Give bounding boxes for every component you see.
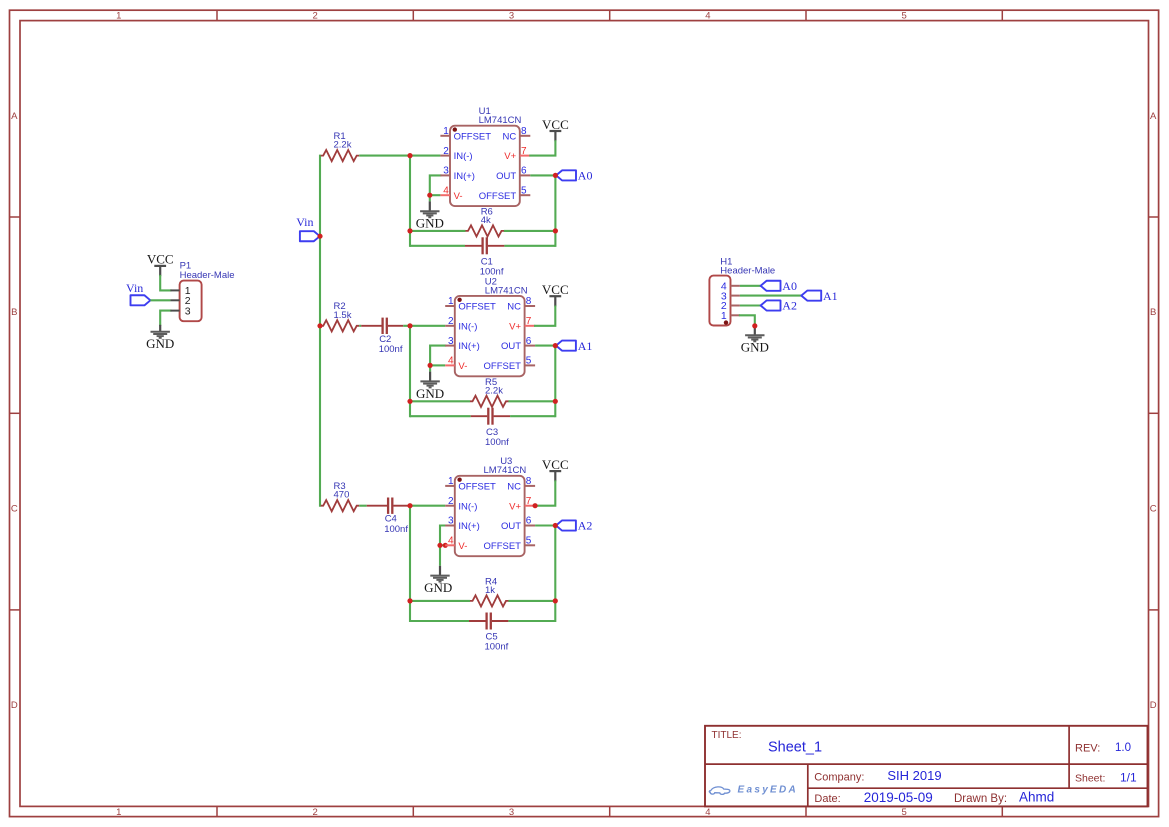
wire ground stub (U2) (429, 365, 431, 371)
capacitor C3 (471, 408, 510, 448)
U1 pin 8 (NC) (502, 126, 530, 142)
svg-text:B: B (11, 307, 17, 318)
svg-text:2: 2 (448, 496, 454, 507)
svg-text:NC: NC (507, 482, 521, 493)
svg-text:2019-05-09: 2019-05-09 (864, 790, 933, 805)
resistor R4 (470, 577, 509, 607)
EasyEDA logo (709, 785, 798, 796)
resistor R2 (321, 301, 360, 331)
wire feedback row right (R5) (508, 400, 555, 402)
ground (U1) (416, 201, 444, 230)
wire junction down to feedback loop (409, 506, 411, 621)
junction bus / R2 (317, 323, 322, 328)
svg-text:A: A (11, 111, 18, 122)
svg-text:1.0: 1.0 (1115, 742, 1131, 754)
svg-text:8: 8 (526, 296, 532, 307)
svg-text:1k: 1k (485, 585, 495, 596)
ground (P1) (146, 325, 174, 351)
wire pin 3 of U1 to ground net (430, 175, 441, 195)
junction at output A0 (553, 173, 558, 178)
net flag A0 (U1 output) (556, 169, 592, 183)
svg-text:VCC: VCC (542, 282, 569, 297)
resistor R5 (470, 377, 509, 407)
svg-text:Vin: Vin (126, 281, 143, 295)
capacitor C1 (465, 237, 504, 277)
net flag Vin (bus) (296, 215, 320, 241)
wire Vin bus vertical (R1/R2/R3 feed) (319, 156, 321, 506)
U2 pin 5 (OFFSET) (484, 356, 536, 372)
junction at output A1 (553, 343, 558, 348)
svg-text:C: C (11, 504, 18, 515)
svg-text:GND: GND (416, 386, 444, 401)
wire VCC to P1 pin 1 (160, 276, 170, 291)
op-amp U2 LM741CN (445, 277, 535, 377)
resistor R1 (321, 131, 360, 161)
wire VCC to pin 7 of U3 (535, 481, 555, 505)
svg-text:1.5k: 1.5k (334, 310, 352, 321)
svg-text:SIH 2019: SIH 2019 (887, 768, 941, 783)
net flag Vin (P1) (126, 281, 150, 306)
U1 pin 2 (IN(-)) (440, 146, 472, 162)
svg-text:A0: A0 (578, 169, 593, 183)
svg-text:7: 7 (526, 496, 532, 507)
svg-text:VCC: VCC (542, 457, 569, 472)
op-amp U3 LM741CN (445, 456, 535, 556)
U1 pin 5 (OFFSET) (479, 185, 531, 201)
wire VCC to pin 7 of U2 (535, 307, 555, 326)
wire pin 6 of U2 to net flag A1 (535, 345, 556, 347)
svg-text:4: 4 (448, 536, 454, 547)
power flag VCC (U1) (542, 117, 569, 142)
svg-text:2: 2 (448, 316, 454, 327)
svg-text:IN(+): IN(+) (458, 341, 479, 352)
wire R1 to pin 2 of U1 (359, 155, 440, 157)
svg-text:2: 2 (443, 146, 449, 157)
wire output down right side of feedback loop (554, 175, 556, 245)
svg-text:V+: V+ (504, 151, 516, 162)
wire feedback row right (R6) (504, 230, 556, 232)
svg-text:TITLE:: TITLE: (712, 730, 742, 741)
svg-text:OFFSET: OFFSET (458, 482, 496, 493)
svg-text:IN(-): IN(-) (458, 321, 477, 332)
junction at pin 7 (U3) (533, 503, 538, 508)
svg-text:5: 5 (526, 536, 532, 547)
wire pin 3 of U3 to ground net (440, 526, 445, 546)
svg-text:5: 5 (902, 10, 907, 21)
svg-text:GND: GND (741, 340, 769, 355)
junction Vin flag/bus (317, 234, 322, 239)
svg-text:IN(+): IN(+) (454, 171, 475, 182)
junction feedback row left (407, 598, 412, 603)
svg-text:A: A (1150, 111, 1157, 122)
wire cap row right (C3) (510, 415, 555, 417)
svg-text:Header-Male: Header-Male (180, 270, 235, 281)
svg-text:1: 1 (116, 10, 121, 21)
svg-text:4: 4 (443, 185, 449, 196)
svg-text:OFFSET: OFFSET (454, 131, 492, 142)
wire junction down to feedback loop (409, 326, 411, 416)
junction feedback row left (407, 399, 412, 404)
H1 pin-1 marker (724, 320, 728, 324)
header P1 Header-Male (170, 261, 234, 322)
svg-text:A2: A2 (782, 299, 797, 313)
svg-text:GND: GND (424, 580, 452, 595)
svg-text:Ahmd: Ahmd (1019, 790, 1054, 805)
wire pin 4 of U3 to ground net (440, 544, 445, 546)
H1 pin 2 (721, 300, 740, 312)
svg-text:1: 1 (116, 807, 121, 818)
svg-text:2.2k: 2.2k (334, 140, 352, 151)
junction feedback row right (553, 399, 558, 404)
resistor R3 (321, 481, 360, 511)
svg-text:NC: NC (507, 302, 521, 313)
svg-text:4k: 4k (481, 215, 491, 226)
svg-text:IN(-): IN(-) (454, 151, 473, 162)
capacitor C5 (469, 613, 509, 653)
U2 pin 7 (V+) (509, 316, 535, 332)
svg-text:6: 6 (526, 336, 532, 347)
U3 pin 4 (V-) (445, 536, 467, 552)
svg-text:100nf: 100nf (485, 642, 509, 653)
svg-text:Sheet_1: Sheet_1 (768, 740, 822, 756)
wire output down right side of feedback loop (554, 526, 556, 622)
svg-text:V+: V+ (509, 501, 521, 512)
junction at feedback tap (407, 503, 412, 508)
svg-text:3: 3 (448, 336, 454, 347)
U3 pin 7 (V+) (509, 496, 535, 512)
svg-text:Date:: Date: (814, 793, 840, 805)
wire ground stub (U3) (439, 545, 441, 566)
svg-text:A1: A1 (823, 289, 838, 303)
svg-text:A2: A2 (578, 519, 593, 533)
svg-text:IN(-): IN(-) (458, 501, 477, 512)
U1 pin 6 (OUT) (496, 166, 530, 182)
wire pin 6 of U3 to net flag A2 (535, 524, 556, 526)
svg-text:5: 5 (526, 356, 532, 367)
svg-text:1: 1 (448, 296, 454, 307)
wire cap row right (C5) (508, 620, 555, 622)
ground (U3) (424, 566, 452, 595)
svg-text:OUT: OUT (496, 171, 516, 182)
svg-text:3: 3 (185, 305, 191, 317)
svg-text:OFFSET: OFFSET (458, 302, 496, 313)
svg-text:1: 1 (443, 126, 449, 137)
svg-text:GND: GND (146, 336, 174, 351)
wire Vin flag to P1 pin 2 (150, 299, 170, 301)
wire H1 pin 2 to net flag A2 (740, 304, 761, 306)
U3 pin 6 (OUT) (501, 516, 535, 532)
wire pin 4 of U2 to ground net (430, 364, 445, 366)
wire output down right side of feedback loop (554, 346, 556, 417)
wire feedback row left (R4) (410, 600, 470, 602)
svg-text:2: 2 (313, 10, 318, 21)
svg-text:5: 5 (902, 807, 907, 818)
svg-text:Company:: Company: (814, 771, 864, 783)
U2 pin 2 (IN(-)) (445, 316, 477, 332)
U3 pin 5 (OFFSET) (484, 536, 536, 552)
junction at feedback tap (407, 323, 412, 328)
P1 pin 1 (170, 285, 190, 297)
power flag VCC (U3) (542, 457, 569, 482)
U1 pin 4 (V-) (440, 185, 462, 201)
junction at pin 4 / ground (428, 363, 433, 368)
junction feedback row right (553, 598, 558, 603)
svg-text:Header-Male: Header-Male (720, 265, 775, 276)
wire pin 4 of U1 to ground net (430, 194, 441, 196)
svg-text:7: 7 (526, 316, 532, 327)
wire C4 to pin 2 of U3 (409, 505, 446, 507)
ground (H1) (741, 326, 769, 355)
svg-text:Sheet:: Sheet: (1075, 772, 1105, 784)
svg-text:LM741CN: LM741CN (485, 285, 528, 296)
svg-text:D: D (11, 700, 18, 711)
wire R2 to C2 (359, 325, 361, 327)
svg-text:8: 8 (526, 476, 532, 487)
svg-text:3: 3 (448, 516, 454, 527)
wire VCC to pin 7 of U1 (530, 141, 555, 155)
svg-text:1: 1 (721, 310, 727, 322)
svg-text:VCC: VCC (542, 117, 569, 132)
U1 pin 3 (IN(+)) (440, 166, 475, 182)
power flag VCC (U2) (542, 282, 569, 307)
U3 pin 8 (NC) (507, 476, 535, 492)
svg-text:C: C (1150, 504, 1157, 515)
svg-text:100nf: 100nf (485, 437, 509, 448)
P1 pin 3 (170, 305, 190, 317)
U3 pin 3 (IN(+)) (445, 516, 480, 532)
svg-text:1: 1 (448, 476, 454, 487)
svg-text:D: D (1150, 700, 1157, 711)
wire P1 pin 3 to ground (160, 311, 170, 325)
op-amp U1 LM741CN (440, 106, 530, 206)
svg-text:1/1: 1/1 (1120, 770, 1137, 784)
svg-text:OUT: OUT (501, 521, 521, 532)
wire pin 6 of U1 to net flag A0 (530, 174, 556, 176)
U2 pin 1 (OFFSET) (445, 296, 496, 312)
junction H1 ground (752, 323, 757, 328)
net flag A2 (U3 output) (556, 519, 592, 533)
svg-text:IN(+): IN(+) (458, 521, 479, 532)
wire cap row right (C1) (504, 245, 555, 247)
svg-text:VCC: VCC (147, 252, 174, 267)
net flag A1 (U2 output) (556, 339, 592, 353)
svg-text:GND: GND (416, 216, 444, 231)
svg-text:V+: V+ (509, 321, 521, 332)
U2 pin 3 (IN(+)) (445, 336, 480, 352)
H1 pin 3 (721, 290, 740, 302)
net flag A2 (H1) (761, 299, 797, 313)
wire cap row left (C3) (410, 415, 471, 417)
wire junction down to feedback loop (409, 156, 411, 246)
junction feedback row left (407, 228, 412, 233)
svg-text:Drawn By:: Drawn By: (954, 793, 1007, 805)
U2 pin 6 (OUT) (501, 336, 535, 352)
capacitor C2 (361, 318, 403, 355)
U3 pin 1 (OFFSET) (445, 476, 496, 492)
svg-text:V-: V- (454, 191, 463, 202)
header H1 Header-Male (709, 257, 775, 326)
svg-text:470: 470 (334, 490, 350, 501)
resistor R6 (466, 207, 505, 237)
net flag A0 (H1) (761, 279, 797, 293)
svg-text:100nf: 100nf (379, 344, 403, 355)
svg-text:6: 6 (521, 166, 527, 177)
wire H1 pin 4 to net flag A0 (740, 285, 761, 287)
svg-text:V-: V- (458, 541, 467, 552)
svg-text:OFFSET: OFFSET (484, 361, 522, 372)
junction at pin 4 / ground (437, 543, 448, 548)
svg-text:Vin: Vin (296, 215, 313, 229)
svg-text:3: 3 (509, 10, 514, 21)
junction feedback row right (553, 228, 558, 233)
svg-text:A1: A1 (578, 339, 593, 353)
U2 pin 8 (NC) (507, 296, 535, 312)
H1 pin 4 (721, 281, 740, 293)
svg-text:A0: A0 (782, 279, 797, 293)
junction at output A2 (553, 523, 558, 528)
wire ground stub (U1) (429, 195, 431, 201)
svg-text:V-: V- (458, 361, 467, 372)
wire H1 pin 1 to ground (740, 315, 755, 326)
net flag A1 (H1) (801, 289, 837, 303)
svg-text:4: 4 (705, 807, 710, 818)
junction at feedback tap (407, 153, 412, 158)
svg-text:5: 5 (521, 185, 527, 196)
wire cap row left (C5) (410, 620, 469, 622)
wire feedback row right (R4) (508, 600, 555, 602)
svg-text:6: 6 (526, 516, 532, 527)
svg-text:3: 3 (443, 166, 449, 177)
svg-text:100nf: 100nf (384, 524, 408, 535)
U1 pin 1 (OFFSET) (440, 126, 491, 142)
wire R3 to C4 (359, 505, 367, 507)
junction at pin 4 / ground (427, 193, 432, 198)
capacitor C4 (367, 498, 409, 535)
svg-text:4: 4 (705, 10, 710, 21)
U3 pin 2 (IN(-)) (445, 496, 477, 512)
svg-text:7: 7 (521, 146, 527, 157)
H1 pin 1 (721, 310, 740, 322)
svg-text:OFFSET: OFFSET (484, 541, 522, 552)
svg-text:OFFSET: OFFSET (479, 191, 517, 202)
svg-text:2.2k: 2.2k (485, 385, 503, 396)
svg-text:EasyEDA: EasyEDA (738, 785, 799, 796)
svg-text:3: 3 (509, 807, 514, 818)
title block (705, 726, 1148, 807)
svg-text:OUT: OUT (501, 341, 521, 352)
wire cap row left (C1) (410, 245, 465, 247)
wire C2 to pin 2 of U2 (403, 325, 445, 327)
U1 pin 7 (V+) (504, 146, 530, 162)
svg-text:4: 4 (448, 356, 454, 367)
wire feedback row left (R5) (410, 400, 470, 402)
svg-text:2: 2 (313, 807, 318, 818)
ground (U2) (416, 372, 444, 401)
svg-text:LM741CN: LM741CN (484, 465, 527, 476)
svg-text:LM741CN: LM741CN (479, 115, 522, 126)
P1 pin 2 (170, 295, 190, 307)
svg-text:NC: NC (502, 131, 516, 142)
wire pin 3 of U2 to ground net (430, 346, 445, 366)
svg-text:8: 8 (521, 126, 527, 137)
power flag VCC (P1) (147, 252, 174, 277)
svg-text:B: B (1150, 307, 1156, 318)
U2 pin 4 (V-) (445, 356, 467, 372)
wire H1 pin 3 to net flag A1 (740, 295, 801, 297)
wire feedback row left (R6) (410, 230, 466, 232)
svg-text:REV:: REV: (1075, 742, 1100, 754)
